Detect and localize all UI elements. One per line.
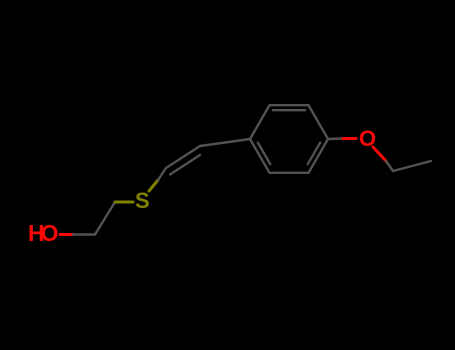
svg-text:S: S: [135, 188, 150, 213]
svg-text:O: O: [359, 126, 376, 151]
svg-text:HO: HO: [28, 220, 58, 246]
